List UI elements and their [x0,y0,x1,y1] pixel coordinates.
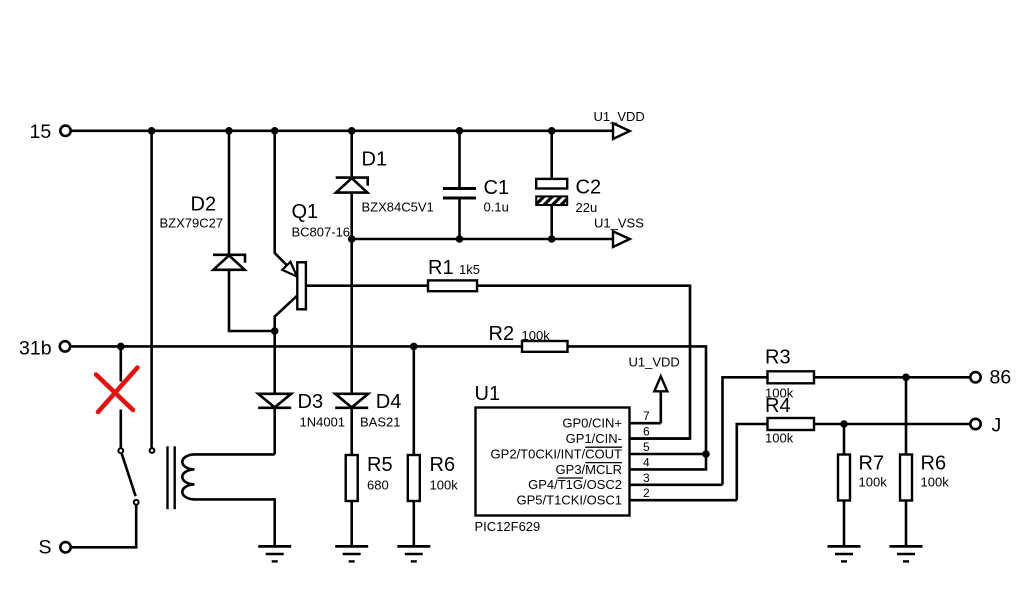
svg-text:R5: R5 [367,454,393,476]
svg-text:R4: R4 [765,395,791,417]
red X mark [96,368,138,413]
pin 3 GP4 [528,471,722,492]
wire D1 to VSS rail and down to D4 [350,193,353,394]
svg-text:2: 2 [643,486,650,500]
ground R6 left [397,546,430,561]
pin 6 GP1/CIN- [566,425,690,446]
svg-text:R3: R3 [765,347,791,369]
junction pin5 [702,450,710,458]
svg-text:BC807-16: BC807-16 [292,225,351,240]
svg-text:1k5: 1k5 [459,262,480,277]
ground R7 [828,546,861,561]
wire C2 lower [550,205,553,239]
svg-text:15: 15 [30,121,52,143]
junction VSS/D1 [348,235,356,243]
wire 15 to D2 [228,131,231,255]
svg-text:J: J [992,415,1002,437]
zener diode D1 [336,149,434,215]
svg-text:100k: 100k [430,478,459,493]
wire pivot to S [72,505,137,548]
relay coil K1 [182,454,194,499]
junction 15/switch [148,127,156,135]
wire R6 right to ground [905,501,908,546]
svg-text:BAS21: BAS21 [360,415,400,430]
svg-text:D1: D1 [362,149,388,171]
wire D4 to R5 [350,408,353,455]
power arrow U1_VSS [594,216,644,248]
wire C2 upper [550,131,553,179]
svg-text:GP5/T1CKI/OSC1: GP5/T1CKI/OSC1 [517,493,622,508]
pin 4 GP3/MCLR [556,455,650,476]
wire R3 to 86 [814,376,969,379]
diode D4 [335,391,401,430]
junction 15/D1 [348,127,356,135]
wire R5 to ground [350,501,353,546]
svg-text:R6: R6 [921,453,947,475]
capacitor C2 [536,176,601,215]
wire 31b rail [71,345,522,348]
junction 15/C1 [456,127,464,135]
resistor R6 right [900,453,949,501]
svg-text:GP3/MCLR: GP3/MCLR [556,462,622,477]
svg-text:D3: D3 [298,391,324,413]
pin 5 GP2 [491,440,706,461]
resistor R4 [765,395,814,446]
wire Q1 collector down to D3 [273,316,276,395]
ground R5 [335,546,368,561]
wire 15 to switch contact [150,131,153,448]
wire pin2 to R4 [737,424,768,500]
power arrow U1_VDD chip [629,355,680,424]
junction 31b/switch [117,343,125,351]
relay core [168,446,175,509]
junction 15/Q1 [271,127,279,135]
wire broken link lower [120,410,123,449]
svg-text:D4: D4 [376,391,402,413]
wire 15 rail [72,130,614,133]
zener diode D2 [160,194,246,270]
wire C1 lower [458,198,461,239]
junction R3/R6 [902,374,910,382]
wire R7 to ground [843,501,846,546]
wire coil bottom to ground [195,499,275,545]
junction VSS/C1 [456,235,464,243]
svg-text:100k: 100k [765,431,794,446]
ic U1 [475,383,630,534]
switch pivot [134,500,139,505]
wire 15 to Q1 emitter [275,131,288,266]
svg-text:GP0/CIN+: GP0/CIN+ [562,416,622,431]
svg-text:GP1/CIN-: GP1/CIN- [566,431,622,446]
svg-text:Q1: Q1 [292,201,319,223]
ground R6 right [890,546,923,561]
junction 15/D2 [225,127,233,135]
svg-text:6: 6 [643,425,650,439]
terminal 15 [30,121,71,143]
svg-text:S: S [39,537,52,559]
svg-text:100k: 100k [859,475,888,490]
svg-text:22u: 22u [576,200,598,215]
terminal 31b [19,338,70,360]
wire R4 node to R7 [843,424,846,455]
svg-text:GP2/T0CKI/INT/COUT: GP2/T0CKI/INT/COUT [491,446,623,461]
svg-text:C2: C2 [576,176,602,198]
resistor R6 left [408,454,458,501]
svg-text:BZX84C5V1: BZX84C5V1 [362,199,434,214]
svg-text:U1_VDD: U1_VDD [629,355,680,370]
svg-text:3: 3 [643,471,650,485]
svg-text:R7: R7 [859,453,885,475]
wire coil top to D3 [195,453,275,456]
junction collector/D2 [271,327,279,335]
junction 31b/R6 [410,343,418,351]
resistor R2 [489,323,568,352]
svg-text:86: 86 [990,367,1012,389]
svg-text:GP4/T1G/OSC2: GP4/T1G/OSC2 [528,477,622,492]
svg-text:U1_VDD: U1_VDD [594,109,645,124]
wire Q1 base to R1 [306,284,428,287]
wire 86 node to R6 right [905,377,908,454]
resistor R3 [765,347,814,401]
svg-text:5: 5 [643,440,650,454]
wire 31b to R6 left [412,346,415,455]
wire C1 upper [458,131,461,188]
switch blade [122,453,136,496]
junction VSS/C2 [548,235,556,243]
svg-text:7: 7 [643,409,650,423]
capacitor C1 [443,177,509,215]
junction 15/C2 [548,127,556,135]
svg-text:R6: R6 [430,454,456,476]
wire R1 to pin6 [477,286,690,439]
terminal 86 [970,367,1011,389]
svg-text:100k: 100k [522,328,551,343]
svg-text:R2: R2 [489,323,515,345]
svg-text:PIC12F629: PIC12F629 [475,519,541,534]
transistor Q1 [275,201,350,317]
pin 7 GP0/CIN+ [562,409,660,430]
wire R2 to pins 5/4 [568,346,707,469]
wire 31b to broken link upper [120,346,123,381]
wire pin3 to R3 [723,377,768,485]
svg-text:C1: C1 [484,177,510,199]
power arrow U1_VDD top [594,109,645,139]
resistor R7 [838,453,887,501]
svg-text:R1: R1 [428,257,454,279]
junction R4/R7 [840,420,848,428]
ground coil [258,546,291,561]
wire VSS rail [352,238,614,241]
svg-text:D2: D2 [191,194,217,216]
svg-text:U1: U1 [475,383,501,405]
svg-text:4: 4 [643,455,650,469]
svg-text:31b: 31b [19,338,52,360]
wire R6 left to ground [412,501,415,546]
svg-text:680: 680 [367,478,389,493]
terminal S [39,537,71,559]
switch contact right [150,448,155,453]
pin 2 GP5 [517,486,737,507]
wire 15 to D1 [350,131,353,178]
terminal J [970,415,1001,437]
svg-text:0.1u: 0.1u [484,200,509,215]
resistor R1 [428,257,480,291]
resistor R5 [346,454,393,501]
wire D2 anode to collector node [229,270,274,331]
svg-text:100k: 100k [921,475,950,490]
svg-text:1N4001: 1N4001 [300,415,346,430]
svg-text:BZX79C27: BZX79C27 [160,216,224,231]
svg-text:U1_VSS: U1_VSS [594,216,644,231]
wire D3 to coil [273,408,276,455]
switch contact left [118,448,123,453]
wire R4 to J [814,423,969,426]
diode D3 [258,391,345,430]
